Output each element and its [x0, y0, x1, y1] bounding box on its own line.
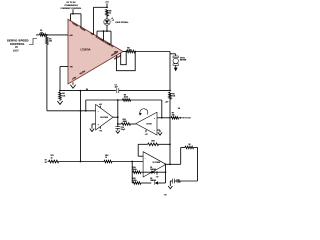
svg-text:100k: 100k	[151, 141, 155, 143]
svg-text:R15: R15	[133, 178, 136, 180]
resistor R8 45.3k	[123, 99, 131, 102]
svg-text:D1: D1	[150, 167, 152, 169]
svg-text:1μF: 1μF	[115, 87, 118, 89]
svg-text:1k: 1k	[51, 157, 53, 159]
resistor R2 20k	[46, 37, 49, 45]
ground U1 COM	[70, 85, 75, 88]
wire EN to +5V	[94, 6, 108, 8]
op-amp U1 LT1970A body	[68, 19, 123, 84]
wire divider down	[169, 99, 171, 164]
motor M1	[175, 54, 177, 56]
svg-text:20k: 20k	[49, 40, 52, 42]
svg-text:SERVO SPEED: SERVO SPEED	[7, 38, 29, 42]
svg-text:0.1Ω: 0.1Ω	[127, 49, 131, 51]
diode D2 1N4148	[155, 181, 158, 184]
wire branch2 mid	[141, 182, 151, 184]
pin FLAG stub	[110, 31, 112, 44]
pin FLAGSRC stub	[96, 31, 98, 36]
op-amp U3 LT1782 buffer	[136, 112, 157, 135]
op-amp U2 1/2 LT1638	[96, 104, 113, 130]
resistor R13 100k	[148, 143, 159, 146]
svg-text:D2: D2	[150, 178, 152, 180]
capacitor C13 2.2uF to ground	[115, 126, 120, 128]
node feedback to -input	[85, 110, 87, 112]
pin VCSRC stub	[70, 14, 72, 21]
wire loop up	[180, 147, 182, 164]
node FLAG junction 1	[103, 30, 105, 32]
node +IN junction	[46, 34, 48, 36]
wire U2 +5V stub	[99, 106, 101, 108]
wire U2 -5V stub	[99, 127, 101, 129]
node +5V junction	[106, 6, 108, 8]
wire to +IN pin	[47, 34, 68, 36]
svg-text:45.3k: 45.3k	[124, 96, 128, 99]
svg-text:−IN: −IN	[69, 67, 73, 69]
wire R3 to LED	[106, 16, 108, 19]
node FLAG junction 2	[106, 30, 108, 32]
wire loop top right	[194, 146, 198, 148]
wire C14 to ground	[170, 180, 172, 182]
wire feedback top left	[138, 143, 148, 145]
wire branch1 right	[155, 171, 166, 173]
wire junction column	[80, 91, 82, 162]
wire loop right side	[197, 147, 199, 181]
wire U3 +input	[157, 117, 162, 119]
wire VCSRC-VCSNK bridge	[71, 13, 82, 15]
capacitor C2 1uF	[116, 88, 118, 93]
wire current control input	[72, 9, 74, 14]
wire U2 +input	[92, 123, 96, 125]
node -IN net junction	[80, 110, 82, 112]
ground U2 +input	[90, 129, 94, 132]
resistor R4 10k to ground	[59, 92, 62, 100]
wire C14 ground down	[169, 181, 171, 186]
wire B corner right	[161, 100, 163, 118]
pin FLAGSNK stub	[103, 31, 105, 40]
wire FLAG bracket	[97, 30, 111, 32]
wire U3 -input down	[159, 130, 161, 132]
diode D1 1N4148	[151, 171, 154, 174]
svg-text:2.2μF: 2.2μF	[121, 129, 125, 131]
wire R4 to ground	[59, 100, 61, 102]
svg-text:0.1μF: 0.1μF	[176, 182, 180, 184]
ground U3	[158, 132, 162, 135]
wire to R10	[118, 123, 122, 125]
resistor R5 10k	[169, 92, 172, 99]
resistor R14 90.9k	[133, 171, 141, 174]
resistor R12 1k	[104, 160, 112, 163]
wire SENSE- loop	[121, 52, 127, 65]
resistor R1 10k	[40, 34, 47, 37]
LED emission arrows	[111, 18, 114, 21]
svg-text:R2: R2	[49, 38, 51, 40]
svg-text:10k: 10k	[172, 96, 175, 98]
svg-text:±10V: ±10V	[13, 50, 19, 53]
svg-text:1k: 1k	[109, 13, 111, 15]
svg-text:CURRENT CONTROL: CURRENT CONTROL	[60, 8, 82, 10]
svg-text:0V TO 5V: 0V TO 5V	[66, 2, 76, 4]
wire bottom row left	[59, 161, 104, 163]
feedback curl arrow U3	[140, 109, 148, 115]
node wire A to integrator	[80, 90, 82, 92]
pin EN stub	[93, 7, 95, 34]
svg-text:100Ω: 100Ω	[123, 121, 128, 123]
input step waveform glyph	[29, 39, 37, 45]
svg-text:90.9k: 90.9k	[133, 169, 137, 171]
node U4 output-diodes	[165, 163, 167, 165]
capacitor C14 0.1uF	[171, 179, 173, 184]
wire bottom input	[48, 161, 49, 163]
wire motor node down	[169, 52, 171, 91]
wire feedback column	[117, 100, 119, 124]
wire tach row	[162, 117, 170, 119]
LED fault indicator	[104, 19, 110, 25]
svg-text:LT1970A: LT1970A	[81, 49, 91, 52]
wire branch1	[131, 171, 134, 173]
wire output to motor	[135, 51, 170, 53]
wire -IN net horizontal	[47, 110, 96, 112]
wire U4 -input stub	[138, 155, 143, 157]
svg-text:6.98k: 6.98k	[133, 180, 137, 182]
wire U4 -5V stub	[156, 171, 158, 174]
node N1 divider	[169, 117, 171, 119]
wire -IN down	[59, 67, 61, 91]
resistor R7 10k	[171, 117, 178, 120]
wire A right segment	[119, 90, 170, 92]
wire B corner down	[85, 100, 87, 111]
wire LED cathode down	[106, 25, 108, 31]
svg-text:MOTOR: MOTOR	[180, 60, 187, 62]
wire diode column left	[131, 162, 133, 184]
negative supply arrow below motor	[174, 68, 178, 72]
wire U3 -input stub	[157, 129, 160, 131]
node C13 top	[117, 123, 119, 125]
resistor R11 1k	[49, 160, 59, 163]
wire loop top	[181, 146, 185, 148]
wire input to R1	[36, 34, 40, 36]
node feedback column top	[169, 143, 171, 145]
svg-text:I THRESHOLD: I THRESHOLD	[64, 5, 79, 7]
node diode branch 1 right	[165, 171, 167, 173]
ground R4	[57, 101, 62, 104]
wire COM to ground	[72, 82, 74, 85]
resistor R10 100 ohm	[122, 123, 131, 126]
svg-text:FAULT/STALL: FAULT/STALL	[116, 21, 130, 24]
wire branch1 mid	[141, 171, 151, 173]
node U4 output-column	[169, 163, 171, 165]
node U2 output	[117, 116, 119, 118]
svg-text:1/2 LT1638: 1/2 LT1638	[100, 117, 108, 119]
wire B feedback	[86, 99, 162, 101]
wire SENSE+ loop	[117, 52, 136, 71]
svg-text:10k: 10k	[172, 115, 175, 117]
node sense right	[134, 51, 136, 53]
node diode branch	[131, 161, 133, 163]
wire motor tab	[170, 53, 176, 55]
pin VCSNK stub	[80, 14, 82, 27]
node A	[59, 90, 61, 92]
wire OUT	[123, 51, 126, 53]
wire branch2 right	[158, 182, 165, 184]
svg-text:LT1782: LT1782	[146, 124, 151, 126]
resistor R15 6.98k	[133, 182, 141, 185]
node sense left	[125, 51, 127, 53]
wire -IN pin stub	[60, 66, 68, 68]
wire loop bottom	[174, 180, 197, 182]
resistor R16 1M	[185, 146, 194, 149]
wire U2 output	[113, 116, 118, 118]
op-amp U4 1/2 LT1638	[143, 152, 166, 177]
wire R2 down to -IN net	[46, 45, 48, 111]
svg-text:0V TO 5V: 0V TO 5V	[182, 118, 191, 120]
ground C14	[168, 186, 172, 189]
svg-text:10k: 10k	[62, 95, 65, 97]
wire branch2	[131, 182, 134, 184]
wire U2 +input down	[91, 124, 93, 129]
resistor RS 0.1 ohm current sense	[127, 50, 135, 53]
svg-text:1k: 1k	[105, 157, 107, 159]
wire diode feedback column	[165, 164, 167, 183]
node motor tap	[169, 90, 171, 92]
wire A left segment	[60, 90, 116, 92]
resistor R3 1k	[106, 10, 109, 17]
wire R10 to U3	[131, 123, 136, 125]
svg-text:10k: 10k	[40, 32, 43, 34]
wire feedback top right	[159, 143, 170, 145]
svg-text:+IN: +IN	[69, 35, 73, 37]
wire +5V down	[106, 3, 108, 7]
node B1	[117, 99, 119, 101]
output terminal arrow	[179, 117, 181, 119]
svg-text:1/2 LT1638: 1/2 LT1638	[153, 162, 161, 164]
wire bottom row right	[112, 161, 143, 163]
wire U4 feedback up	[137, 144, 139, 156]
node bottom wire junction	[80, 161, 82, 163]
node current control	[72, 13, 74, 15]
wire U4 output	[166, 163, 181, 165]
ground C13	[116, 131, 120, 134]
wire U3 -5V stub	[145, 130, 147, 133]
node B2	[161, 117, 163, 119]
